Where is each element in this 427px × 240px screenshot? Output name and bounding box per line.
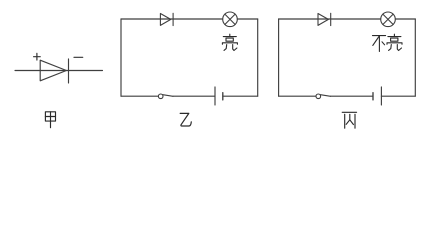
circuit bing: top wire right segment bbox=[395, 18, 415, 20]
circuit bing: right wire bbox=[414, 19, 416, 96]
circuit yi: top wire left segment bbox=[121, 18, 223, 20]
plus polarity label of D-jia bbox=[34, 53, 41, 60]
diode D2 cathode bar bbox=[330, 13, 332, 25]
circuit bing: left wire bbox=[278, 19, 280, 96]
lamp L2 circle bbox=[381, 12, 396, 27]
circuit bing: bottom wire right segment bbox=[381, 95, 415, 97]
switch S2 pivot circle bbox=[316, 94, 321, 99]
circuit yi: bottom wire left segment bbox=[121, 95, 158, 97]
battery B1 long plate (positive) bbox=[214, 87, 216, 105]
circuit bing: bottom wire middle segment bbox=[331, 95, 373, 97]
lamp L1 circle bbox=[223, 12, 238, 27]
label bu (not) under lamp L2 bbox=[373, 36, 386, 52]
diode D1 cathode bar bbox=[172, 13, 174, 25]
diode D-jia cathode bar bbox=[68, 59, 70, 83]
circuit yi: left wire bbox=[120, 19, 122, 96]
circuit bing: bottom wire left segment bbox=[279, 95, 316, 97]
circuit yi: bottom wire right segment bbox=[223, 95, 258, 97]
wire lead of diode in figure jia bbox=[15, 70, 103, 72]
battery B1 short plate (negative) bbox=[222, 93, 224, 100]
minus polarity label of D-jia bbox=[74, 56, 83, 58]
circuit yi: right wire bbox=[257, 19, 259, 96]
label liang (bright) of bu-liang bbox=[387, 34, 402, 50]
diode D-jia triangle (anode) bbox=[40, 60, 66, 81]
battery B2 long plate (positive) bbox=[380, 87, 382, 105]
diode D2 triangle bbox=[318, 14, 328, 26]
diode D1 triangle bbox=[160, 14, 170, 26]
label liang (bright) under lamp L1 bbox=[222, 34, 237, 50]
label jia (Chinese character) bbox=[45, 112, 55, 128]
circuit bing: top wire left segment bbox=[279, 18, 381, 20]
label bing (Chinese character) bbox=[342, 112, 356, 128]
switch S2 lever bbox=[320, 95, 330, 97]
lamp L2 cross bbox=[383, 14, 393, 24]
battery B2 short plate (negative) bbox=[372, 93, 374, 100]
circuit yi: bottom wire middle segment bbox=[173, 95, 215, 97]
circuit yi: top wire right segment bbox=[237, 18, 257, 20]
lamp L1 cross bbox=[225, 14, 235, 24]
switch S1 pivot circle bbox=[158, 94, 163, 99]
switch S1 lever bbox=[163, 95, 173, 97]
label yi (Chinese character) bbox=[180, 113, 191, 126]
